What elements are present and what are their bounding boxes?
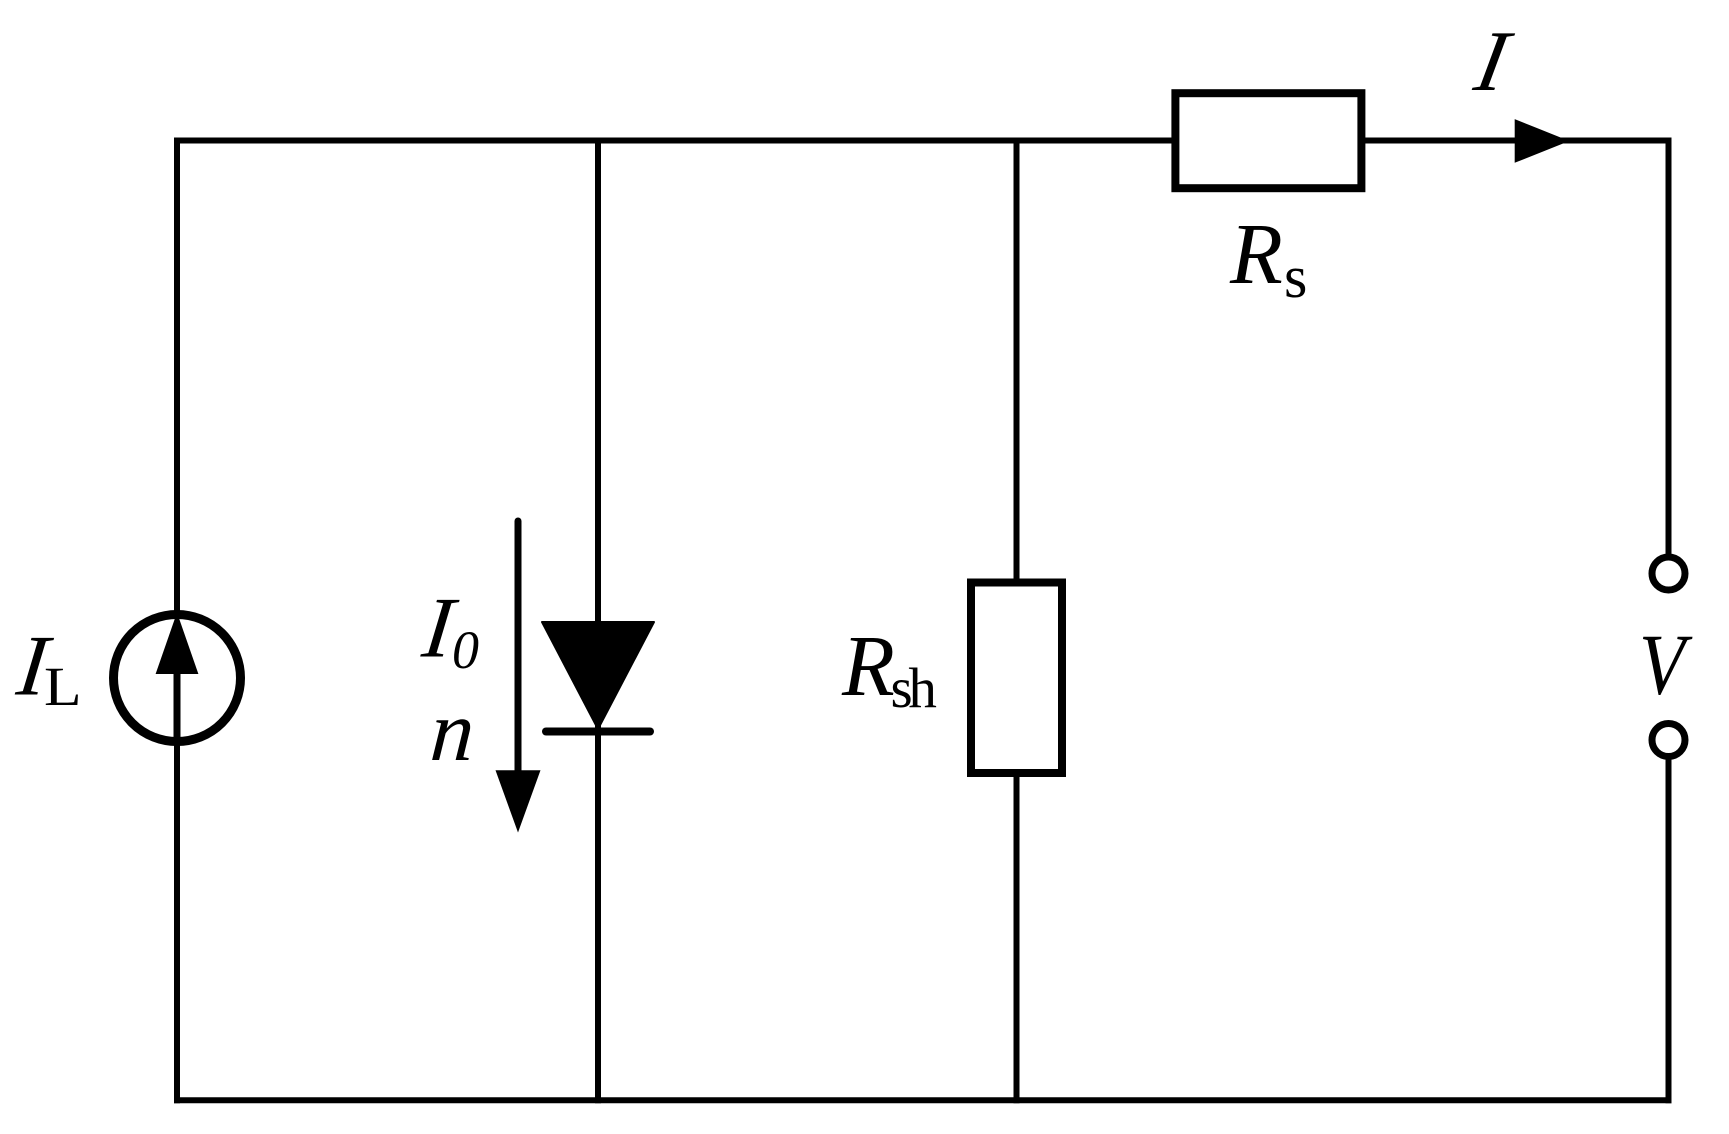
- label I output current: [1467, 13, 1519, 109]
- current source IL arrow head: [156, 613, 199, 675]
- terminal node + circle: [1652, 557, 1685, 590]
- output current I arrow head: [1515, 119, 1570, 163]
- svg-text:0: 0: [452, 620, 479, 680]
- diode current I0 arrow head: [496, 770, 541, 832]
- diode D cathode bar: [546, 728, 650, 736]
- svg-text:R: R: [1229, 206, 1283, 302]
- wire right branch lower: [1666, 753, 1672, 1103]
- diode current I0 arrow shaft: [515, 521, 522, 785]
- current source IL arrow shaft: [174, 660, 181, 742]
- terminal node - circle: [1652, 724, 1685, 757]
- wire left branch: [174, 138, 180, 1104]
- wire diode branch: [595, 138, 601, 1104]
- svg-text:n: n: [428, 683, 478, 779]
- svg-text:V: V: [1639, 617, 1693, 713]
- label V output voltage: [1639, 617, 1693, 713]
- diode D triangle: [542, 622, 654, 729]
- svg-text:L: L: [44, 656, 82, 717]
- label I0 n: [417, 580, 463, 676]
- svg-text:h: h: [908, 657, 937, 720]
- wire bottom bus: [174, 1097, 1672, 1103]
- current source IL circle: [114, 615, 241, 742]
- wire top bus from node A to right: [174, 138, 1672, 144]
- svg-text:s: s: [1284, 244, 1307, 310]
- wire right branch upper: [1666, 138, 1672, 561]
- svg-text:R: R: [841, 618, 895, 714]
- resistor Rsh body: [971, 583, 1062, 774]
- label IL: [12, 618, 58, 714]
- wire shunt branch: [1014, 138, 1020, 1104]
- resistor Rs body: [1175, 93, 1361, 188]
